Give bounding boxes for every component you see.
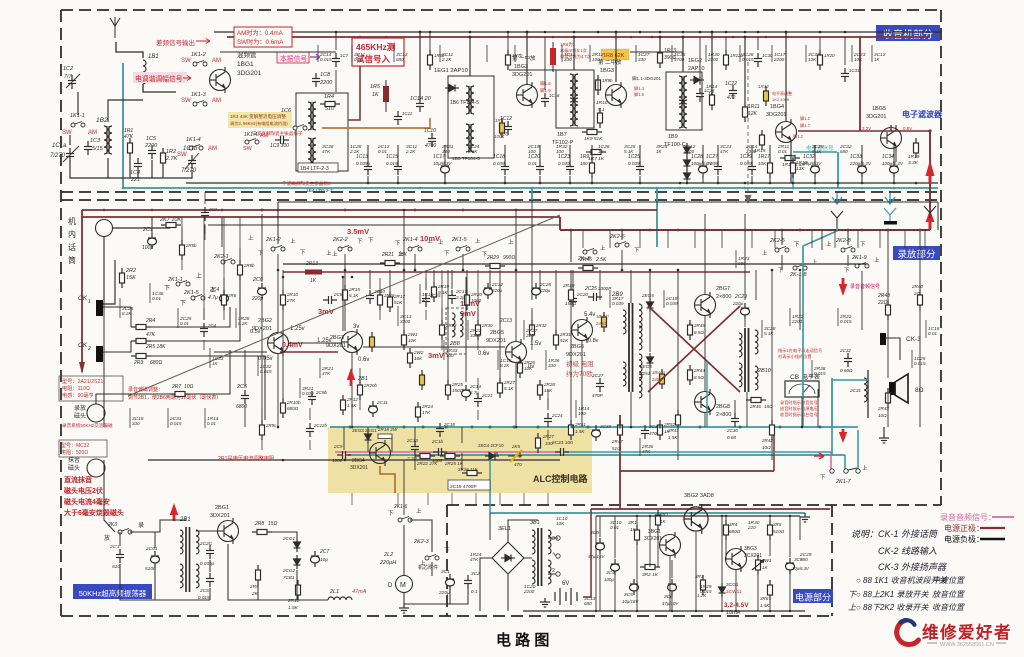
IF can 1B7 (556, 70, 594, 128)
wire (344, 303, 346, 331)
variable capacitor 1C1b (188, 155, 196, 169)
svg-text:2R2: 2R2 (125, 268, 136, 274)
svg-text:510: 510 (112, 564, 120, 570)
svg-text:2B8: 2B8 (449, 341, 461, 347)
svg-text:100: 100 (528, 149, 536, 154)
svg-text:13K: 13K (796, 166, 805, 172)
svg-text:脚1.2: 脚1.2 (793, 133, 804, 140)
svg-text:1K2 100K: 1K2 100K (772, 97, 790, 102)
switch row: 2K1-4 (408, 246, 422, 252)
svg-text:7/270: 7/270 (50, 153, 66, 159)
svg-text:ALC控制电路: ALC控制电路 (533, 473, 588, 484)
svg-text:SW: SW (177, 152, 187, 158)
receiver horizontal links (220, 51, 336, 53)
svg-text:2C7: 2C7 (319, 549, 329, 555)
resistor 2R52 (658, 420, 663, 440)
svg-text:2K1-5: 2K1-5 (183, 290, 200, 296)
transistor 2BG5 (506, 339, 527, 365)
yellow note 1R3 43K (228, 112, 292, 128)
svg-text:1K: 1K (422, 297, 429, 302)
svg-text:5.1K: 5.1K (764, 331, 774, 336)
wire: teal signal bus lower (348, 454, 845, 456)
switch 放录 (118, 529, 132, 535)
ground right band (879, 434, 889, 443)
svg-text:17K: 17K (422, 410, 431, 415)
capacitor 1C15 (394, 161, 402, 175)
wire stub (639, 438, 641, 456)
svg-text:2R47: 2R47 (611, 439, 623, 444)
svg-text:3C1: 3C1 (441, 569, 450, 575)
svg-text:2W1: 2W1 (407, 332, 418, 337)
wire stub (705, 45, 707, 62)
svg-text:混频管: 混频管 (237, 50, 257, 59)
transistor 1BG1 mixer (210, 67, 231, 93)
wire (769, 516, 771, 520)
wire output top/bottom (648, 290, 740, 306)
svg-text:10K: 10K (854, 57, 863, 62)
svg-text:2C9b: 2C9b (315, 390, 327, 395)
svg-text:初级 电阻: 初级 电阻 (566, 359, 594, 368)
svg-text:下: 下 (844, 267, 850, 274)
svg-text:1K: 1K (656, 149, 663, 154)
svg-text:2R22 27K: 2R22 27K (416, 461, 438, 466)
capacitor 2C6 (258, 283, 267, 299)
capacitor 2C32 (484, 283, 493, 299)
switch 1K1-3 (193, 101, 207, 107)
resistor 2W1 (402, 330, 407, 350)
svg-text:2C1: 2C1 (142, 227, 153, 233)
svg-text:2R18 2W: 2R18 2W (377, 427, 398, 432)
svg-text:0.68Ω: 0.68Ω (840, 368, 853, 373)
svg-text:0.015: 0.015 (198, 595, 210, 600)
svg-text:上: 上 (290, 237, 296, 245)
svg-text:100μ/6.3V: 100μ/6.3V (882, 161, 904, 166)
svg-text:0.8v: 0.8v (588, 338, 599, 344)
capacitor 1C6 (278, 116, 292, 124)
wire drop (419, 32, 421, 98)
capacitor 2C8 (323, 296, 337, 304)
svg-text:1.5K: 1.5K (760, 603, 770, 608)
resistor 1R7 (586, 150, 606, 155)
svg-text:2R1是电压电流调整电阻: 2R1是电压电流调整电阻 (218, 454, 274, 462)
svg-text:脚1.5: 脚1.5 (540, 80, 551, 87)
wires motor (403, 525, 405, 575)
svg-text:1K1-4: 1K1-4 (244, 132, 258, 138)
wire (570, 270, 572, 286)
resistor 1R19 (914, 138, 919, 158)
red down arrow right band (839, 429, 847, 443)
svg-text:1C14 20: 1C14 20 (410, 96, 432, 102)
svg-text:1.5K: 1.5K (668, 435, 678, 440)
resistor 2R12 (341, 395, 346, 415)
wire (757, 575, 759, 611)
svg-text:2C27: 2C27 (591, 373, 604, 379)
capacitor 2C32 (844, 353, 852, 367)
wire mic down (103, 237, 105, 300)
wire (466, 270, 468, 290)
wire (671, 560, 673, 578)
wire: tape black bus (283, 263, 868, 265)
capacitor 2C34 (641, 425, 649, 439)
svg-text:2K2-6: 2K2-6 (609, 234, 626, 240)
label box 收音机部分 (876, 25, 940, 41)
wire (599, 516, 601, 537)
svg-text:筒: 筒 (68, 255, 76, 265)
resistor 2R51 (569, 420, 574, 440)
svg-text:1BG4: 1BG4 (770, 104, 784, 110)
capacitor 3C4 (611, 559, 620, 575)
wire: teal signal bus upper (330, 426, 858, 428)
wire stub (497, 350, 499, 370)
wire: diagonal reference line tape (128, 215, 560, 396)
svg-text:3EL1: 3EL1 (498, 526, 511, 532)
capacitor 2C14 (462, 385, 471, 401)
svg-text:放: 放 (104, 534, 110, 542)
wire: receiver bottom rail (186, 182, 938, 184)
svg-text:1B4 LTF-2-3: 1B4 LTF-2-3 (300, 166, 329, 172)
svg-text:2C23 100: 2C23 100 (552, 440, 573, 446)
svg-text:0.015: 0.015 (840, 319, 852, 324)
svg-text:CK: CK (78, 295, 88, 302)
capacitor 1C9 (275, 136, 289, 144)
svg-text:47mA: 47mA (352, 589, 367, 595)
svg-text:2K-1-8: 2K-1-8 (789, 272, 807, 278)
svg-text:3C5: 3C5 (624, 592, 633, 598)
svg-text:1R17: 1R17 (758, 154, 770, 160)
svg-text:5.1K: 5.1K (624, 149, 634, 154)
capacitor 2C23 100 (555, 448, 569, 456)
wire (539, 270, 541, 290)
wire stub (545, 350, 547, 370)
svg-text:0.01: 0.01 (378, 149, 387, 154)
svg-text:3B1: 3B1 (530, 520, 540, 526)
diode 1EG2 (690, 77, 704, 84)
svg-text:2R26: 2R26 (523, 360, 535, 365)
diode 2CG2 (294, 555, 301, 569)
svg-text:WWW.362558561.CN: WWW.362558561.CN (940, 642, 994, 648)
wire (636, 516, 638, 525)
svg-text:直流抹音: 直流抹音 (64, 475, 92, 484)
svg-text:3mV: 3mV (428, 351, 444, 360)
pot 3W1 (752, 555, 764, 575)
trimmer 1C3 (84, 141, 92, 155)
wire (649, 270, 651, 298)
wire (581, 341, 583, 427)
level meter CB (785, 381, 819, 397)
svg-text:2K1-6: 2K1-6 (393, 504, 408, 510)
svg-text:3DG201: 3DG201 (237, 70, 262, 77)
svg-text:1B6 TF104-5: 1B6 TF104-5 (450, 100, 479, 106)
resistor 2R19 (432, 282, 437, 302)
plug jack Y x890 with ground bar (884, 208, 896, 221)
svg-text:0.039: 0.039 (628, 161, 640, 166)
svg-text:2R21: 2R21 (381, 252, 394, 258)
capacitor 1C18 (501, 161, 509, 175)
svg-text:100μ: 100μ (142, 245, 153, 251)
svg-text:680Ω: 680Ω (729, 529, 741, 534)
IF can 1B9 (666, 72, 702, 130)
svg-text:CK-3: CK-3 (906, 336, 921, 343)
svg-text:上: 上 (862, 464, 868, 472)
wire stub (129, 408, 131, 428)
wire (801, 397, 803, 427)
resistor 2R10b (281, 398, 286, 418)
teal vertical x707 (706, 362, 708, 427)
svg-text:2BG4: 2BG4 (352, 458, 365, 464)
capacitor 1C28 (699, 161, 708, 177)
coil 2L1 47mH (328, 597, 352, 600)
wire drop (659, 37, 661, 48)
svg-text:1R19: 1R19 (908, 154, 920, 160)
svg-text:100μ: 100μ (604, 577, 614, 582)
svg-text:AM: AM (260, 133, 269, 139)
resistor 2R9 (256, 565, 261, 585)
svg-text:下: 下 (300, 249, 306, 256)
wire (595, 516, 597, 611)
resistor highlight (420, 370, 425, 390)
svg-text:510: 510 (325, 106, 335, 112)
svg-text:CK: CK (78, 342, 88, 349)
wire: power teal rail (490, 512, 805, 514)
wire stub (451, 493, 453, 505)
wire stub (177, 308, 179, 328)
resistor 3R6 (768, 580, 773, 600)
svg-text:村表示小钱的位置: 村表示小钱的位置 (778, 353, 812, 360)
svg-text:2K1-9: 2K1-9 (851, 255, 867, 261)
svg-text:0.015: 0.015 (700, 589, 712, 594)
bridge rectifier 3EL1 (492, 542, 524, 574)
svg-text:990Ω: 990Ω (503, 255, 515, 261)
svg-text:465KHz测: 465KHz测 (356, 42, 396, 52)
svg-text:1K1-2: 1K1-2 (191, 52, 206, 58)
svg-text:2R44: 2R44 (693, 368, 705, 373)
frame: receiver box bottom edge (61, 191, 941, 193)
transistor 1BG4 detector (776, 119, 797, 145)
svg-text:1K: 1K (874, 57, 881, 62)
svg-text:2W2: 2W2 (413, 350, 424, 355)
svg-text:8.2K: 8.2K (122, 311, 132, 316)
svg-text:1C10: 1C10 (424, 128, 436, 134)
resistor 2R7 (170, 392, 190, 397)
svg-text:上: 上 (438, 238, 444, 246)
svg-text:680: 680 (840, 149, 848, 154)
svg-text:5.4v: 5.4v (584, 312, 595, 318)
svg-text:1C28: 1C28 (691, 154, 703, 160)
resistor 2R15 (343, 285, 348, 305)
driver transformer 2B9 (628, 303, 630, 392)
svg-text:51K: 51K (394, 300, 403, 305)
resistor 2R26 (518, 358, 523, 378)
wire (599, 270, 601, 300)
svg-text:1K9 51K: 1K9 51K (584, 136, 603, 142)
svg-text:0.039: 0.039 (493, 161, 505, 166)
wire (342, 277, 344, 331)
red down arrow 录音音频信号 (839, 278, 847, 296)
capacitor 1C13 (364, 161, 372, 175)
right switch cluster 2K1-9 (855, 263, 869, 269)
svg-text:6800: 6800 (236, 404, 247, 410)
resistor 2R27 330 (536, 433, 541, 453)
svg-text:磁头: 磁头 (74, 412, 86, 420)
capacitor 2C33 (592, 425, 601, 441)
svg-text:47K: 47K (720, 149, 729, 154)
resistor 2K7 10K (161, 223, 181, 228)
svg-text:1K: 1K (630, 527, 637, 533)
svg-text:1C15: 1C15 (386, 154, 398, 160)
svg-text:3AD8: 3AD8 (700, 493, 714, 499)
wire stub (397, 493, 399, 505)
transistor 3BG3 (726, 546, 747, 572)
resistor 2W2 (408, 348, 413, 368)
svg-text:1K: 1K (212, 361, 219, 366)
svg-text:9DX201: 9DX201 (486, 338, 506, 344)
wire stub (663, 290, 665, 308)
svg-text:3CX201: 3CX201 (744, 553, 762, 559)
svg-text:机芯附件: 机芯附件 (418, 564, 438, 571)
transistor 2BG4 alc (370, 440, 391, 466)
wire (887, 388, 889, 427)
svg-text:2CW11: 2CW11 (726, 589, 742, 595)
capacitor 2C29 (741, 303, 750, 319)
maroon resistor 2R13 inline (305, 270, 322, 275)
wire stub (851, 45, 853, 62)
svg-text:2AP10: 2AP10 (688, 66, 705, 72)
svg-text:1R7 1K: 1R7 1K (588, 156, 605, 162)
erase head 抹音磁头 (59, 440, 107, 457)
svg-text:2: 2 (552, 568, 555, 574)
svg-text:2EG4 2CF10: 2EG4 2CF10 (478, 443, 504, 448)
wire (746, 392, 748, 427)
wire (447, 270, 449, 380)
svg-text:10K: 10K (556, 521, 565, 526)
switch 2K1-1 (176, 281, 190, 287)
resistor 3R5 (768, 520, 773, 540)
frame: power box left edge (446, 505, 448, 616)
wire mic right (113, 227, 170, 229)
teal junction speaker (832, 380, 868, 427)
svg-text:2EG5: 2EG5 (641, 293, 654, 298)
resistor 1R18 (791, 158, 796, 178)
wire (847, 255, 849, 266)
svg-text:0.039: 0.039 (666, 301, 678, 306)
wire (261, 214, 263, 282)
svg-text:1C17: 1C17 (433, 154, 445, 160)
svg-text:2C4: 2C4 (209, 287, 219, 293)
teal pair through ALC to right (565, 451, 831, 453)
svg-text:1C27: 1C27 (706, 154, 718, 160)
svg-text:2C5: 2C5 (236, 384, 248, 390)
frame: tape section top edge (61, 199, 941, 201)
svg-text:CB: CB (790, 374, 799, 381)
svg-text:3300: 3300 (470, 333, 481, 338)
svg-text:1C18: 1C18 (493, 154, 505, 160)
svg-text:50KHz超高频振荡器: 50KHz超高频振荡器 (79, 588, 147, 598)
resistor 2R21 (380, 261, 400, 266)
wire stub (167, 408, 169, 428)
junction dots power (636, 515, 638, 517)
svg-text:2C'1: 2C'1 (109, 544, 120, 550)
logo swirl red (897, 620, 919, 644)
svg-text:1K1-3: 1K1-3 (191, 92, 207, 98)
capacitor 1C25 (636, 161, 644, 175)
svg-text:1C20: 1C20 (528, 154, 540, 160)
red up arrow mid (347, 368, 355, 386)
yellow box 1R8 62K (601, 49, 629, 60)
wire (695, 532, 697, 611)
svg-text:2B1: 2B1 (357, 376, 368, 382)
svg-text:47μ/16V: 47μ/16V (588, 554, 605, 559)
svg-text:录音音频信号：: 录音音频信号： (940, 512, 996, 522)
svg-text:10μ/6.3V: 10μ/6.3V (433, 161, 452, 166)
svg-text:1B5 TF104-5: 1B5 TF104-5 (452, 156, 480, 162)
svg-text:2.2K: 2.2K (405, 149, 416, 154)
svg-text:1R10: 1R10 (596, 100, 608, 106)
svg-text:4700: 4700 (674, 57, 685, 62)
svg-text:2R28: 2R28 (543, 382, 555, 387)
svg-text:2C33: 2C33 (599, 424, 611, 429)
speaker (889, 382, 895, 395)
wire: maroon bottom bus y471 (620, 470, 774, 472)
svg-text:抹音: 抹音 (68, 456, 80, 464)
capacitor 2C18 (436, 423, 444, 437)
wire: maroon supply y131 right (798, 130, 930, 132)
svg-text:AM: AM (88, 130, 97, 136)
svg-text:1000: 1000 (471, 298, 482, 303)
power transformer 3B1 (537, 528, 539, 586)
svg-text:脚1.1-3DG201: 脚1.1-3DG201 (632, 75, 662, 82)
svg-text:2C31: 2C31 (849, 388, 861, 393)
maroon drop to battery (583, 509, 591, 597)
wire stub (467, 320, 469, 340)
resistor 2R25 alc (440, 454, 460, 459)
svg-text:AM: AM (212, 98, 221, 104)
svg-text:12K: 12K (748, 111, 758, 117)
svg-text:M: M (400, 582, 406, 589)
frame: power box top edge (447, 504, 941, 506)
svg-text:0.039: 0.039 (612, 301, 624, 306)
svg-text:330: 330 (442, 149, 450, 154)
wire (403, 210, 405, 330)
svg-text:3R4: 3R4 (729, 522, 738, 527)
wire stub (204, 408, 206, 428)
resistor 2R20 (465, 290, 470, 310)
red box AM/SW current (234, 27, 292, 47)
wire stub (393, 45, 395, 62)
wire (704, 413, 706, 427)
svg-text:本振信号: 本振信号 (280, 54, 307, 63)
wire (919, 310, 921, 427)
svg-text:上: 上 (398, 250, 404, 258)
svg-text:1BG5: 1BG5 (872, 106, 886, 112)
svg-text:3W1: 3W1 (762, 558, 772, 563)
svg-text:1R9b: 1R9b (602, 78, 613, 83)
red label 本振信号 (277, 52, 309, 63)
transformer 2B8 dashed box (446, 308, 466, 354)
ground motor (399, 604, 409, 613)
svg-text:2200: 2200 (319, 80, 333, 86)
svg-text:0.01: 0.01 (528, 161, 537, 166)
resistor 1R9 (590, 158, 595, 178)
svg-text:2R49: 2R49 (693, 323, 705, 328)
diode 2CG1 (294, 538, 301, 552)
svg-text:1C1b: 1C1b (183, 146, 198, 152)
svg-text:15K: 15K (544, 388, 553, 393)
wire (630, 270, 632, 303)
wire X2 (648, 306, 740, 392)
capacitor 2C1 (148, 233, 157, 249)
wire: maroon jog x560 (559, 217, 561, 230)
svg-text:下: 下 (482, 251, 488, 258)
